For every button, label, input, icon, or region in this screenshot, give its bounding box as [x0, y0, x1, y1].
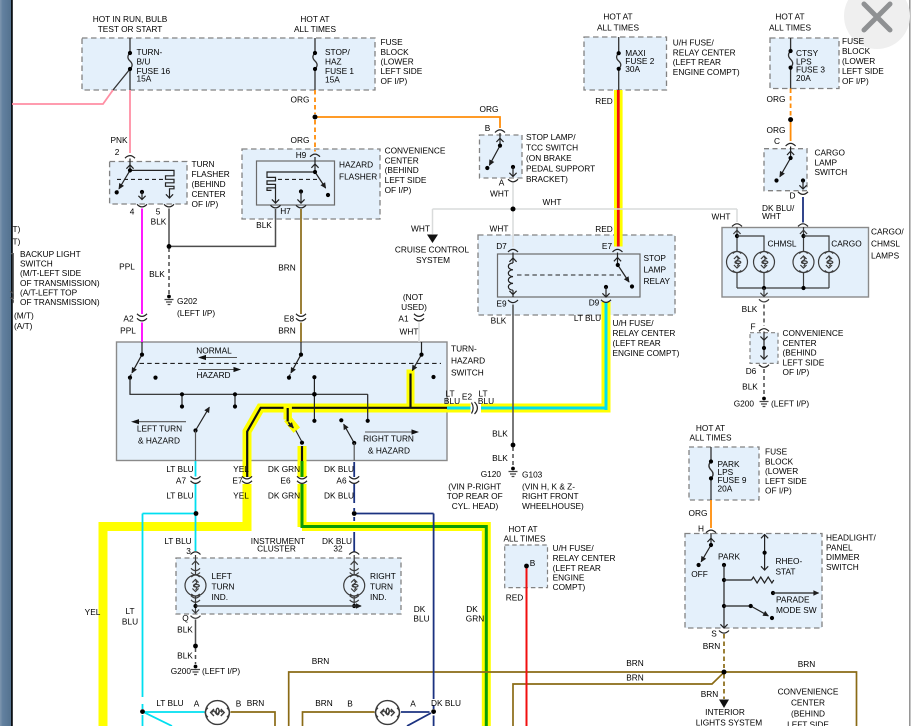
lamp CHMSL 2: [754, 251, 775, 272]
turn flasher internals: [115, 159, 174, 207]
labels BLK ground G202: [149, 269, 215, 318]
svg-text:LT BLU: LT BLU: [574, 313, 601, 323]
svg-text:(LOWER: (LOWER: [381, 57, 414, 67]
svg-text:& HAZARD: & HAZARD: [368, 446, 410, 456]
svg-text:T): T): [13, 237, 21, 247]
svg-text:MODE SW: MODE SW: [776, 605, 817, 615]
svg-text:BLK: BLK: [256, 220, 272, 230]
svg-text:OF I/P): OF I/P): [192, 199, 219, 209]
instrument cluster right turn indicator: [344, 555, 365, 608]
svg-text:DK: DK: [466, 604, 478, 614]
svg-text:CENTER: CENTER: [192, 189, 226, 199]
svg-text:TOP REAR OF: TOP REAR OF: [447, 491, 503, 501]
svg-text:TURN-: TURN-: [137, 47, 163, 57]
svg-text:BRN: BRN: [278, 263, 296, 273]
svg-text:(LOWER: (LOWER: [765, 466, 798, 476]
svg-text:ENGINE COMPT): ENGINE COMPT): [613, 348, 680, 358]
svg-text:FUSE: FUSE: [842, 36, 865, 46]
svg-text:T): T): [13, 224, 21, 234]
svg-text:FLASHER: FLASHER: [339, 172, 377, 182]
svg-text:LEFT SIDE: LEFT SIDE: [381, 66, 423, 76]
svg-text:A7: A7: [176, 476, 187, 486]
connector A7: [191, 476, 201, 483]
svg-text:RELAY CENTER: RELAY CENTER: [673, 47, 736, 57]
svg-text:A: A: [410, 699, 416, 709]
svg-text:ORG: ORG: [291, 135, 310, 145]
wire BRN right front lamp B down: [303, 712, 375, 726]
svg-text:PPL: PPL: [119, 262, 135, 272]
svg-text:YEL: YEL: [233, 464, 249, 474]
svg-text:CHMSL: CHMSL: [767, 239, 796, 249]
svg-text:SYSTEM: SYSTEM: [416, 255, 450, 265]
svg-text:A: A: [194, 699, 200, 709]
stop lamp relay outer box: [478, 235, 675, 315]
svg-text:STOP: STOP: [644, 253, 667, 263]
svg-text:(M/T-LEFT SIDE: (M/T-LEFT SIDE: [20, 268, 82, 278]
junction LT BLU: [194, 511, 199, 516]
svg-text:RED: RED: [595, 96, 613, 106]
svg-text:WHT: WHT: [411, 224, 430, 234]
svg-text:RIGHT FRONT: RIGHT FRONT: [522, 491, 579, 501]
stop lamp/TCC switch internals: [485, 133, 518, 182]
svg-text:GRN: GRN: [466, 614, 484, 624]
svg-text:IND.: IND.: [212, 592, 229, 602]
svg-text:TURN: TURN: [192, 159, 215, 169]
svg-text:ENGINE: ENGINE: [553, 573, 585, 583]
svg-text:CHMSL: CHMSL: [871, 239, 900, 249]
svg-text:(M/T): (M/T): [14, 311, 34, 321]
ground G120/G103: [509, 467, 518, 477]
connector H9 (hazard flasher input): [310, 154, 320, 157]
svg-text:HOT AT: HOT AT: [603, 12, 632, 22]
svg-text:LT BLU: LT BLU: [166, 491, 193, 501]
svg-text:& HAZARD: & HAZARD: [138, 436, 180, 446]
svg-text:WHT: WHT: [762, 211, 781, 221]
svg-text:E6: E6: [280, 476, 291, 486]
turn flasher box: [110, 162, 187, 205]
svg-text:WHT: WHT: [712, 212, 731, 222]
svg-text:CARGO: CARGO: [815, 148, 846, 158]
svg-text:HAZARD: HAZARD: [196, 370, 230, 380]
svg-text:BLU: BLU: [478, 396, 494, 406]
svg-text:A2: A2: [123, 314, 134, 324]
svg-text:HOT AT: HOT AT: [696, 423, 725, 433]
labels cargo lamp switch: [712, 148, 848, 222]
svg-text:CENTER: CENTER: [783, 338, 817, 348]
svg-text:(LEFT I/P): (LEFT I/P): [202, 666, 240, 676]
svg-text:DK BLU: DK BLU: [324, 464, 354, 474]
svg-text:USED): USED): [401, 302, 427, 312]
fuse TURN-B/U FUSE 16 15A: [128, 38, 132, 90]
ground G200 (cluster): [191, 665, 200, 675]
svg-text:OF I/P): OF I/P): [783, 367, 810, 377]
svg-text:BRN: BRN: [278, 326, 296, 336]
switch left turn blade: [193, 407, 209, 460]
svg-text:BLK: BLK: [491, 316, 507, 326]
lamp CHMSL 1: [727, 251, 748, 272]
svg-text:D: D: [790, 191, 796, 201]
svg-text:G200: G200: [734, 399, 755, 409]
turn-hazard switch box: [117, 342, 448, 461]
svg-text:SWITCH: SWITCH: [451, 368, 484, 378]
junction DK BLU: [352, 511, 357, 516]
svg-text:CENTER: CENTER: [791, 698, 825, 708]
svg-text:4: 4: [130, 207, 135, 217]
svg-text:FUSE: FUSE: [765, 447, 788, 457]
svg-text:B: B: [530, 558, 536, 568]
svg-text:BLK: BLK: [492, 429, 508, 439]
svg-text:CRUISE CONTROL: CRUISE CONTROL: [395, 245, 470, 255]
wire BRN rail 2: [513, 673, 724, 726]
svg-text:HOT AT: HOT AT: [300, 14, 329, 24]
svg-text:BRN: BRN: [701, 689, 719, 699]
svg-text:(VIN P-RIGHT: (VIN P-RIGHT: [448, 482, 501, 492]
junction BRN: [722, 670, 727, 675]
svg-text:TEST OR START: TEST OR START: [98, 24, 163, 34]
svg-text:WHT: WHT: [543, 197, 562, 207]
junction B (U/H fuse relay center feed): [524, 564, 529, 569]
connector B (stop lamp/TCC switch): [495, 130, 505, 133]
svg-text:D7: D7: [496, 241, 507, 251]
svg-text:HOT AT: HOT AT: [775, 12, 804, 22]
switch dk grn tap blade: [287, 404, 304, 445]
svg-text:D6: D6: [746, 366, 757, 376]
maxi fuse box (U/H fuse relay center): [584, 37, 667, 90]
wire BLK cluster Q to G200: [195, 620, 197, 665]
labels ORG wires top: [291, 95, 499, 146]
svg-text:SWITCH: SWITCH: [815, 167, 848, 177]
svg-text:BLOCK: BLOCK: [381, 47, 410, 57]
svg-text:(ON BRAKE: (ON BRAKE: [526, 153, 572, 163]
arrow to cruise control system: [427, 235, 438, 244]
labels front lamps: [156, 698, 461, 709]
connector A2 (PPL): [137, 314, 147, 321]
wire WHT net: TCC A, cruise control, relay D7, cargo/chmsl lamps: [433, 182, 738, 247]
svg-text:OF TRANSMISSION): OF TRANSMISSION): [20, 297, 100, 307]
svg-text:DIMMER: DIMMER: [826, 552, 860, 562]
svg-text:S: S: [711, 629, 717, 639]
svg-text:LAMP: LAMP: [815, 157, 838, 167]
lamp CARGO 2: [819, 251, 840, 272]
close button: [844, 0, 910, 49]
convenience center internals (F to D6): [759, 332, 769, 368]
svg-text:SWITCH: SWITCH: [20, 259, 53, 269]
svg-text:ALL TIMES: ALL TIMES: [294, 24, 336, 34]
svg-text:CLUSTER: CLUSTER: [257, 544, 296, 554]
svg-text:RELAY CENTER: RELAY CENTER: [553, 553, 616, 563]
U/H fuse relay center box (B terminal): [505, 545, 548, 588]
svg-text:STOP LAMP/: STOP LAMP/: [526, 132, 576, 142]
svg-text:BLU: BLU: [444, 396, 460, 406]
junction DK BLU front lamp: [431, 709, 436, 714]
svg-text:(LOWER: (LOWER: [842, 56, 875, 66]
svg-text:C: C: [774, 136, 780, 146]
connector DK BLU/WHT (cargo/chmsl lamps right): [798, 224, 808, 227]
svg-text:PARADE: PARADE: [776, 595, 810, 605]
svg-text:WHT: WHT: [490, 189, 509, 199]
junction ORG ctsy: [788, 117, 793, 122]
svg-text:LIGHTS SYSTEM: LIGHTS SYSTEM: [696, 718, 762, 726]
svg-text:BLK: BLK: [492, 453, 508, 463]
wire BRN to interior lights system: [723, 674, 725, 699]
fuse STOP/HAZ FUSE 1 15A: [313, 38, 317, 90]
svg-text:E8: E8: [284, 314, 295, 324]
svg-text:BRN: BRN: [312, 656, 330, 666]
cargo lamp switch internals: [774, 147, 808, 195]
svg-text:Q: Q: [182, 613, 189, 623]
right window edge line: [909, 0, 911, 726]
svg-text:LAMP: LAMP: [644, 265, 667, 275]
labels maxi fuse: [595, 12, 740, 107]
svg-text:DK: DK: [414, 604, 426, 614]
wire PNK from TURN-B/U fuse tap to left edge: [12, 69, 130, 153]
svg-text:WHEELHOUSE): WHEELHOUSE): [522, 501, 584, 511]
labels PPL wire: [119, 262, 136, 336]
svg-text:B: B: [485, 123, 491, 133]
svg-text:ORG: ORG: [480, 104, 499, 114]
svg-text:B: B: [347, 699, 353, 709]
svg-text:ALL TIMES: ALL TIMES: [597, 23, 639, 33]
labels dimmer switch: [691, 533, 876, 652]
svg-text:OF TRANSMISSION): OF TRANSMISSION): [20, 278, 100, 288]
svg-text:G103: G103: [522, 470, 543, 480]
wire ORG from STOP/HAZ fuse 1 to junction, TCC switch B and hazard flasher H9: [315, 90, 500, 152]
svg-text:ORG: ORG: [291, 95, 310, 105]
svg-text:OF I/P): OF I/P): [842, 76, 869, 86]
svg-text:ORG: ORG: [767, 125, 786, 135]
svg-text:YEL: YEL: [233, 491, 249, 501]
svg-text:E7: E7: [602, 241, 613, 251]
connector H (dimmer switch): [706, 530, 716, 533]
svg-text:(LEFT I/P): (LEFT I/P): [771, 399, 809, 409]
svg-text:RELAY: RELAY: [644, 276, 671, 286]
svg-text:CONVENIENCE: CONVENIENCE: [783, 328, 844, 338]
svg-text:U/H FUSE/: U/H FUSE/: [553, 543, 595, 553]
svg-text:(A/T-LEFT TOP: (A/T-LEFT TOP: [20, 288, 78, 298]
svg-text:3: 3: [186, 546, 191, 556]
svg-text:(LEFT REAR: (LEFT REAR: [673, 57, 721, 67]
svg-text:ALL TIMES: ALL TIMES: [690, 433, 732, 443]
labels left wires bottom: [85, 604, 485, 627]
svg-text:HEADLIGHT/: HEADLIGHT/: [826, 533, 876, 543]
switch right turn blade: [339, 418, 356, 460]
svg-text:20A: 20A: [718, 483, 733, 493]
svg-text:B/U: B/U: [137, 57, 151, 67]
connector E8 (BRN): [296, 314, 306, 321]
fuse MAXI FUSE 2 30A: [617, 37, 621, 90]
svg-text:H: H: [698, 524, 704, 534]
svg-text:32: 32: [333, 544, 343, 554]
wire LT BLU highlighted (relay D9 down, left to switch E2): [442, 302, 611, 413]
svg-text:A: A: [499, 178, 505, 188]
ground G200 (right, below D6): [760, 397, 769, 407]
labels switch connector row: [166, 464, 354, 501]
junction ORG (stop/haz fuse output): [313, 115, 318, 120]
wire BRN left front lamp B down: [231, 712, 276, 726]
svg-text:BLOCK: BLOCK: [842, 46, 871, 56]
junction WHT: [511, 207, 516, 212]
svg-text:ENGINE COMPT): ENGINE COMPT): [673, 67, 740, 77]
svg-text:BLOCK: BLOCK: [765, 456, 794, 466]
svg-text:BRN: BRN: [703, 641, 721, 651]
fuse CTSY LPS FUSE 3 20A: [789, 38, 793, 89]
switch left/right turn direction arrows: [131, 419, 419, 435]
svg-text:TURN-: TURN-: [451, 344, 477, 354]
wire DK BLU/WHT cargo lamp switch D to lamps box: [802, 197, 804, 223]
svg-text:H7: H7: [280, 206, 291, 216]
svg-text:ORG: ORG: [689, 508, 708, 518]
svg-text:E9: E9: [496, 299, 507, 309]
svg-text:30A: 30A: [625, 64, 640, 74]
cargo/chmsl lamps box: [722, 228, 869, 298]
svg-text:LEFT SIDE: LEFT SIDE: [385, 175, 427, 185]
svg-text:U/H FUSE/: U/H FUSE/: [673, 38, 715, 48]
svg-text:5: 5: [156, 207, 161, 217]
svg-text:RIGHT TURN: RIGHT TURN: [363, 434, 414, 444]
svg-text:CONVENIENCE: CONVENIENCE: [385, 146, 446, 156]
svg-text:BRN: BRN: [626, 673, 644, 683]
svg-text:RELAY CENTER: RELAY CENTER: [613, 328, 676, 338]
svg-text:(VIN H, K & Z-: (VIN H, K & Z-: [522, 482, 575, 492]
connector 2 (turn flasher input): [125, 156, 135, 159]
svg-text:HAZARD: HAZARD: [451, 356, 485, 366]
svg-text:CONVENIENCE: CONVENIENCE: [778, 687, 839, 697]
svg-text:LEFT TURN: LEFT TURN: [137, 424, 182, 434]
labels fuse block top left: [93, 14, 423, 86]
svg-text:(BEHIND: (BEHIND: [192, 179, 226, 189]
labels turn-hazard switch: [137, 344, 494, 456]
hazard flasher internals: [267, 157, 330, 208]
connector D7 (relay): [508, 249, 518, 252]
svg-text:BLK: BLK: [149, 269, 165, 279]
labels turn flasher: [110, 135, 229, 227]
svg-text:LT: LT: [125, 606, 134, 616]
wire ORG ctsy fuse 3 to cargo lamp switch C: [790, 89, 792, 142]
cargo/chmsl lamps internals: [733, 227, 829, 302]
lamp CARGO 1: [793, 251, 814, 272]
connector E6: [297, 476, 307, 483]
cargo lamp switch box: [764, 149, 807, 191]
lamp right front park/turn: [375, 701, 399, 725]
switch normal/hazard direction arrows: [198, 355, 241, 372]
svg-text:(LEFT REAR: (LEFT REAR: [613, 338, 661, 348]
labels stop lamp relay: [491, 224, 680, 358]
svg-text:OF I/P): OF I/P): [381, 76, 408, 86]
svg-text:LT BLU: LT BLU: [164, 536, 191, 546]
svg-text:TURN: TURN: [370, 581, 393, 591]
svg-text:BRN: BRN: [626, 658, 644, 668]
svg-text:BLK: BLK: [742, 382, 758, 392]
wire ORG park lps fuse 9 to dimmer switch H: [710, 500, 712, 528]
svg-text:BRN: BRN: [798, 659, 816, 669]
svg-text:HOT IN RUN, BULB: HOT IN RUN, BULB: [93, 14, 168, 24]
svg-text:YEL: YEL: [85, 607, 101, 617]
svg-text:BLU: BLU: [413, 614, 429, 624]
svg-text:DK BLU: DK BLU: [431, 698, 461, 708]
wire RED highlighted (maxi fuse 2 to stop lamp relay E7): [614, 90, 623, 247]
junction BLK (turn+hazard flasher grounds): [167, 244, 172, 249]
wire BRN dimmer switch S to junction: [723, 634, 725, 668]
svg-text:PARK: PARK: [718, 552, 740, 562]
svg-text:G202: G202: [177, 296, 198, 306]
backup light switch box fragment (left edge): [11, 254, 13, 299]
wire BLK cargo/chmsl lamps to F, D6 to G200: [763, 305, 765, 397]
svg-text:LEFT SIDE: LEFT SIDE: [765, 476, 807, 486]
svg-text:IND.: IND.: [370, 592, 387, 602]
svg-text:OF I/P): OF I/P): [765, 486, 792, 496]
wire DK GRN highlighted (switch E6 down, right, down to bottom): [301, 446, 487, 726]
svg-text:G200: G200: [171, 666, 192, 676]
fuse PARK LPS FUSE 9 20A: [709, 447, 713, 500]
svg-text:U/H FUSE/: U/H FUSE/: [613, 318, 655, 328]
svg-text:COMPT): COMPT): [553, 582, 586, 592]
svg-text:RIGHT: RIGHT: [370, 571, 396, 581]
svg-text:LEFT SIDE: LEFT SIDE: [783, 357, 825, 367]
svg-text:FLASHER: FLASHER: [192, 169, 230, 179]
svg-text:CARGO: CARGO: [831, 239, 862, 249]
svg-text:CYL. HEAD): CYL. HEAD): [452, 501, 499, 511]
svg-text:STAT: STAT: [776, 567, 796, 577]
connector A1 (WHT, not used): [414, 314, 424, 321]
svg-text:BLK: BLK: [742, 304, 758, 314]
svg-text:DK GRN: DK GRN: [268, 491, 300, 501]
svg-text:RHEO-: RHEO-: [776, 556, 803, 566]
svg-text:(BEHIND: (BEHIND: [385, 165, 419, 175]
svg-text:OF I/P): OF I/P): [385, 185, 412, 195]
svg-text:TCC SWITCH: TCC SWITCH: [526, 143, 578, 153]
svg-text:HOT AT: HOT AT: [508, 524, 537, 534]
svg-text:15A: 15A: [325, 75, 340, 85]
svg-text:G120: G120: [481, 469, 502, 479]
svg-text:BLK: BLK: [151, 217, 167, 227]
switch common rail and contact stubs: [130, 375, 370, 423]
turn-hazard switch internals: [128, 342, 441, 380]
left window edge bar: [0, 0, 13, 726]
arrow to interior lights system: [719, 700, 729, 709]
labels stop lamp/TCC switch: [485, 123, 595, 199]
instrument cluster box: [176, 558, 401, 614]
connector E7: [242, 476, 252, 483]
svg-text:A6: A6: [336, 476, 347, 486]
svg-text:STOP/: STOP/: [325, 47, 350, 57]
labels ctsy fuse: [767, 12, 885, 147]
wire BRN rail 1 and risers: [289, 672, 857, 726]
stop lamp relay inner box: [498, 254, 641, 297]
svg-text:F: F: [750, 322, 755, 332]
ctsy fuse box (fuse block): [770, 38, 839, 89]
convenience center small box (F-D6): [750, 333, 778, 364]
wire BLK relay E9 to G120/G103: [512, 305, 514, 467]
svg-text:PANEL: PANEL: [826, 542, 853, 552]
headlight/panel dimmer switch internals: [697, 533, 819, 633]
svg-text:H9: H9: [296, 150, 307, 160]
labels park lps fuse: [689, 423, 808, 534]
connector A6: [349, 476, 359, 483]
svg-text:(LEFT I/P): (LEFT I/P): [177, 308, 215, 318]
svg-text:BLK: BLK: [177, 651, 193, 661]
svg-text:SWITCH: SWITCH: [826, 562, 859, 572]
svg-text:BACKUP LIGHT: BACKUP LIGHT: [20, 249, 81, 259]
svg-text:WHT: WHT: [400, 327, 419, 337]
svg-text:WHT: WHT: [490, 224, 509, 234]
wire PPL turn flasher 4 to A2 to switch: [141, 209, 143, 343]
hazard flasher inner box: [257, 161, 335, 205]
svg-text:E7: E7: [232, 476, 243, 486]
svg-text:(LEFT REAR: (LEFT REAR: [553, 563, 601, 573]
svg-text:RED: RED: [506, 592, 524, 602]
svg-text:(A/T): (A/T): [14, 321, 33, 331]
fuse block box (top left, lower left side of I/P): [82, 38, 375, 90]
